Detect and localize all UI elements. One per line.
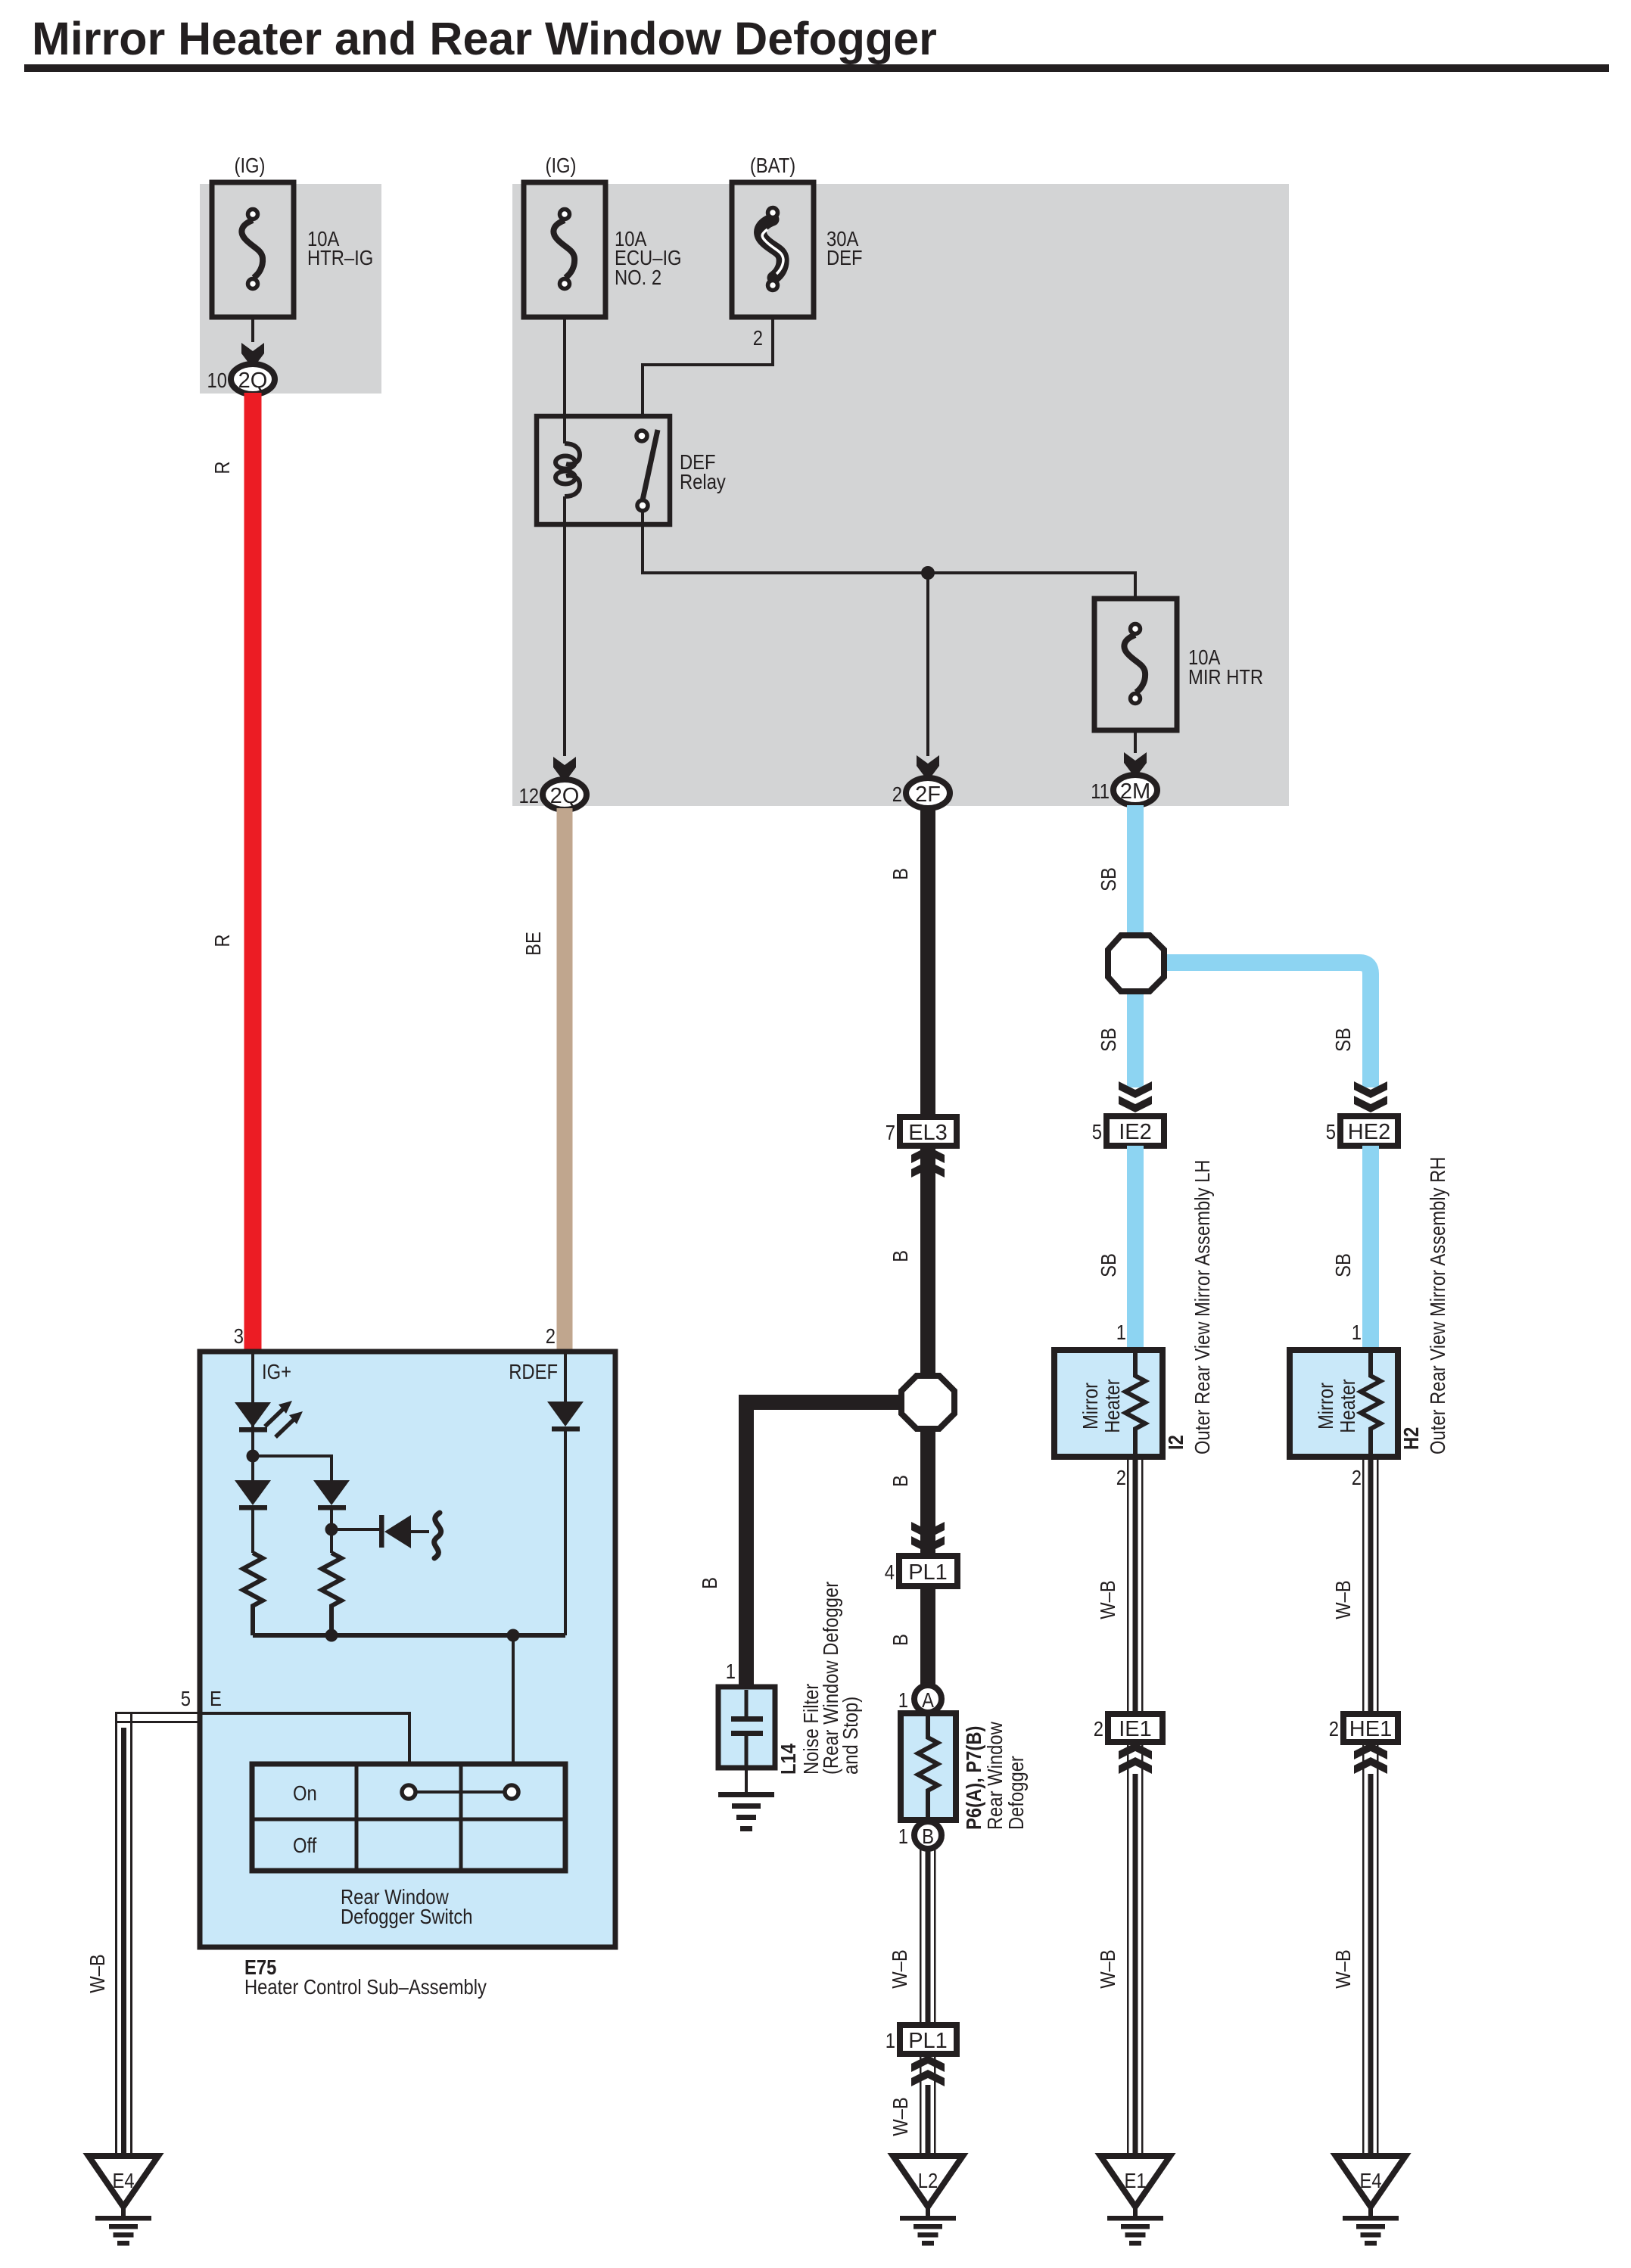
wire RDEF diode down to bottom rail (564, 1431, 567, 1635)
arrow into connector 2Q pin 12 (553, 757, 576, 782)
svg-text:EL3: EL3 (908, 1121, 948, 1145)
svg-text:1: 1 (1116, 1320, 1126, 1344)
wire SB splice down to IE2 (1127, 991, 1144, 1087)
diode with curve (buzzer diode) (379, 1513, 441, 1558)
svg-text:Off: Off (293, 1833, 317, 1857)
svg-text:E1: E1 (1124, 2168, 1146, 2192)
wire relay switch to MIR HTR fuse and 2F branch (643, 511, 1135, 599)
wire B black 2F to EL3 (920, 807, 935, 1118)
arrow into connector 2Q pin 10 (241, 343, 264, 369)
svg-text:Outer Rear View Mirror Assembl: Outer Rear View Mirror Assembly RH (1425, 1157, 1449, 1454)
defogger switch box (252, 1764, 565, 1871)
svg-text:3: 3 (234, 1324, 244, 1348)
wire fuse1 to connector (251, 317, 254, 342)
svg-text:2: 2 (546, 1324, 556, 1348)
wire noise filter to ground (745, 1768, 748, 1794)
wire junction down to 2F (926, 573, 929, 756)
fuse HTR-IG element (241, 210, 263, 289)
svg-text:PL1: PL1 (908, 2029, 948, 2053)
wire B black EL3 to splice (920, 1146, 935, 1380)
svg-text:2: 2 (1329, 1716, 1339, 1741)
noise filter L14 box (718, 1687, 775, 1768)
wire SB HE2 to mirror heater RH (1362, 1146, 1379, 1352)
relay coil (556, 443, 580, 496)
fuse DEF element 30A thick (761, 208, 783, 291)
svg-text:SB: SB (1096, 1253, 1120, 1277)
svg-text:2M: 2M (1120, 779, 1150, 804)
connector oval 2F pin 2 (906, 778, 950, 808)
ground E1 (1100, 2156, 1170, 2246)
splice octagon black wire (901, 1376, 954, 1429)
svg-text:B: B (888, 1475, 912, 1487)
svg-text:2: 2 (753, 325, 763, 350)
fuse DEF box (732, 182, 814, 317)
svg-text:W–B: W–B (1095, 1949, 1119, 1989)
ground E4 left (89, 2156, 158, 2246)
svg-text:Relay: Relay (680, 469, 726, 493)
svg-text:NO. 2: NO. 2 (615, 265, 661, 289)
gray block main (relay / fuse area) (512, 184, 1289, 806)
svg-text:Heater Control Sub–Assembly: Heater Control Sub–Assembly (244, 1974, 487, 1999)
svg-text:W–B: W–B (1331, 1949, 1355, 1989)
svg-text:I2: I2 (1163, 1435, 1187, 1450)
svg-text:(IG): (IG) (235, 153, 266, 177)
arrow into connector 2M (1124, 752, 1147, 778)
svg-text:L2: L2 (918, 2168, 938, 2192)
svg-text:PL1: PL1 (908, 1560, 948, 1585)
connector oval 2M pin 11 (1113, 775, 1157, 805)
wire RDEF down (564, 1352, 567, 1402)
svg-text:HE1: HE1 (1349, 1717, 1392, 1741)
bottom rail wire in E75 (253, 1633, 565, 1638)
mirror heater LH caption rotated (1078, 1379, 1124, 1433)
svg-text:MIR HTR: MIR HTR (1188, 664, 1263, 689)
svg-text:2: 2 (1094, 1716, 1103, 1741)
mirror heater LH box (1054, 1350, 1163, 1457)
svg-text:1: 1 (886, 2028, 895, 2052)
chevron arrow up into HE1 (1354, 1743, 1387, 1774)
svg-text:HTR–IG: HTR–IG (307, 245, 373, 269)
svg-text:W–B: W–B (1331, 1580, 1355, 1619)
wire MIR HTR fuse to 2M (1134, 730, 1137, 753)
svg-text:B: B (697, 1577, 721, 1589)
wire SB 2M to splice (1127, 805, 1144, 938)
wire DEF fuse to relay switch (643, 317, 773, 418)
wire W-B HE1 to ground E4 (1362, 1742, 1379, 2154)
svg-text:E: E (210, 1686, 222, 1710)
connector circle A pin 1 (914, 1685, 942, 1713)
svg-text:Mirror Heater and Rear Window: Mirror Heater and Rear Window Defogger (32, 13, 937, 64)
chevron arrow up into EL3 (911, 1146, 945, 1178)
diode left (235, 1480, 271, 1510)
relay switch contacts and blade (637, 430, 658, 511)
chevron arrow up into IE1 (1119, 1743, 1152, 1774)
connector oval 2Q pin 12 (543, 779, 587, 810)
wire B black PL1 to defogger A (920, 1586, 935, 1685)
wire W-B IE1 to ground E1 (1127, 1742, 1144, 2154)
fuse HTR-IG box (212, 182, 294, 317)
junction dot below LED (247, 1450, 260, 1463)
chevron arrow down into HE2 (1354, 1081, 1387, 1112)
svg-text:A: A (922, 1688, 934, 1712)
svg-text:(IG): (IG) (546, 153, 577, 177)
svg-text:2: 2 (1116, 1465, 1126, 1489)
splice octagon SB (1108, 935, 1164, 991)
svg-text:2: 2 (892, 782, 902, 806)
svg-text:SB: SB (1096, 867, 1120, 891)
wire left diode to resistor (251, 1510, 254, 1553)
junction dot at 2F branch (921, 566, 935, 580)
svg-text:B: B (888, 868, 912, 880)
wire B black splice left to noise filter (746, 1402, 901, 1687)
svg-text:IG+: IG+ (262, 1359, 291, 1383)
svg-text:1: 1 (726, 1659, 736, 1683)
wire right diode to resistor (330, 1510, 333, 1553)
svg-text:2Q: 2Q (550, 784, 580, 808)
svg-text:R: R (210, 461, 234, 474)
diode right (313, 1480, 350, 1510)
wire rail junction down to switch (512, 1635, 515, 1764)
connector IE1 pin 2 (1108, 1714, 1163, 1742)
diode RDEF (547, 1402, 584, 1432)
ground below noise filter (718, 1792, 774, 1831)
connector oval 2Q pin 10 (231, 364, 275, 394)
svg-text:7: 7 (886, 1120, 895, 1144)
svg-text:SB: SB (1331, 1028, 1355, 1052)
svg-text:Heater: Heater (1100, 1379, 1124, 1433)
switch grid divider vertical 2 (459, 1764, 463, 1871)
svg-text:H2: H2 (1399, 1427, 1423, 1450)
svg-text:Heater: Heater (1335, 1379, 1359, 1433)
fuse ECU-IG box (524, 182, 605, 317)
svg-text:1: 1 (1352, 1320, 1362, 1344)
svg-text:B: B (922, 1824, 934, 1848)
fuse ECU-IG element (553, 210, 574, 289)
mirror heater LH resistor (1125, 1350, 1145, 1457)
svg-text:12: 12 (519, 783, 539, 807)
LED arrows (265, 1401, 303, 1437)
svg-text:11: 11 (1091, 779, 1110, 803)
switch contact (402, 1785, 518, 1799)
fuse MIR HTR box (1094, 599, 1177, 730)
connector PL1 pin 4 (899, 1556, 957, 1586)
mirror heater RH caption rotated (1313, 1379, 1359, 1433)
wire branch to right diode (253, 1456, 331, 1480)
svg-text:BE: BE (521, 932, 545, 956)
connector HE2 pin 5 (1340, 1116, 1398, 1146)
arrow into connector 2F (917, 755, 939, 781)
connector HE1 pin 2 (1343, 1714, 1398, 1742)
ground L2 (893, 2156, 963, 2246)
wire fuse2 through relay coil top (563, 317, 566, 443)
svg-text:W–B: W–B (888, 2097, 912, 2136)
svg-text:Outer Rear View Mirror Assembl: Outer Rear View Mirror Assembly LH (1190, 1160, 1214, 1454)
svg-text:SB: SB (1331, 1253, 1355, 1277)
junction dot bottom rail left (325, 1629, 338, 1642)
svg-text:5: 5 (1326, 1119, 1336, 1143)
defogger resistor (918, 1713, 938, 1820)
svg-text:RDEF: RDEF (509, 1359, 558, 1383)
chevron arrow down into IE2 (1119, 1081, 1152, 1112)
svg-text:Mirror: Mirror (1313, 1383, 1337, 1430)
svg-text:Mirror: Mirror (1078, 1383, 1102, 1430)
wire relay coil bottom (563, 496, 566, 756)
mirror heater RH box (1290, 1350, 1398, 1457)
svg-text:2F: 2F (915, 782, 941, 807)
svg-text:DEF: DEF (826, 245, 863, 269)
switch grid divider vertical 1 (355, 1764, 359, 1871)
relay DEF box (537, 416, 670, 524)
chevron arrow up into PL1 (911, 2055, 945, 2086)
switch grid divider horizontal (252, 1818, 565, 1822)
svg-text:B: B (888, 1634, 912, 1646)
connector PL1 pin 1 (900, 2025, 957, 2054)
wire IG+ down (251, 1352, 254, 1456)
ground E4 right (1336, 2156, 1405, 2246)
svg-text:Defogger: Defogger (1004, 1756, 1028, 1830)
gray block left (HTR-IG fuse area) (200, 184, 381, 394)
svg-text:E4: E4 (112, 2168, 134, 2192)
svg-text:SB: SB (1096, 1028, 1120, 1052)
svg-text:(BAT): (BAT) (750, 153, 795, 177)
svg-text:IE1: IE1 (1119, 1717, 1152, 1741)
capacitor in noise filter (731, 1690, 763, 1768)
svg-text:E4: E4 (1359, 2168, 1381, 2192)
wire W-B mirror RH to HE1 (1362, 1457, 1379, 1714)
wire E to switch (200, 1713, 409, 1764)
svg-text:1: 1 (898, 1688, 908, 1712)
svg-text:4: 4 (885, 1560, 895, 1584)
wire B black splice down to PL1 (920, 1429, 935, 1557)
svg-text:IE2: IE2 (1119, 1120, 1152, 1144)
svg-text:10: 10 (207, 368, 227, 392)
svg-text:2Q: 2Q (238, 369, 268, 393)
svg-text:W–B: W–B (85, 1954, 109, 1993)
LED indicator diode (235, 1402, 271, 1433)
wire W-B mirror LH to IE1 (1127, 1457, 1144, 1714)
resistor right in E75 (322, 1553, 341, 1635)
svg-text:1: 1 (898, 1824, 908, 1848)
wire SB IE2 to mirror heater LH (1127, 1146, 1144, 1352)
wire W-B defogger B to PL1 (920, 1849, 936, 2025)
wire BE tan from 2Q to E75 (557, 808, 573, 1352)
junction dot right branch (325, 1523, 338, 1536)
connector circle B pin 1 (914, 1822, 942, 1849)
fuse MIR HTR element (1124, 624, 1145, 704)
junction dot bottom rail right (507, 1629, 520, 1642)
svg-text:5: 5 (1092, 1119, 1102, 1143)
wire junction to zener diode (331, 1528, 381, 1531)
wire R red from 2Q to E75 (244, 393, 262, 1352)
E75 heater control sub-assembly box (200, 1352, 615, 1947)
title underline (24, 64, 1609, 72)
connector EL3 pin 7 (900, 1117, 957, 1146)
wire W-B from E to ground E4 (115, 1712, 201, 2154)
svg-text:2: 2 (1352, 1465, 1362, 1489)
connector IE2 pin 5 (1107, 1116, 1164, 1146)
svg-text:HE2: HE2 (1348, 1120, 1390, 1144)
svg-text:5: 5 (181, 1686, 191, 1710)
resistor left in E75 (243, 1553, 263, 1635)
wire LED junction down (251, 1456, 254, 1480)
rear window defogger element box (901, 1713, 956, 1820)
mirror heater RH resistor (1361, 1350, 1380, 1457)
svg-text:W–B: W–B (887, 1949, 911, 1989)
svg-text:Defogger Switch: Defogger Switch (341, 1904, 473, 1928)
chevron arrow down into PL1 (911, 1522, 945, 1553)
svg-text:and Stop): and Stop) (838, 1697, 862, 1775)
svg-text:B: B (888, 1250, 912, 1262)
svg-text:L14: L14 (776, 1744, 800, 1775)
svg-text:On: On (293, 1781, 317, 1805)
wire SB splice right to RH (1163, 963, 1371, 1087)
svg-text:W–B: W–B (1095, 1580, 1119, 1619)
svg-text:R: R (210, 934, 234, 947)
wire W-B PL1 to ground L2 (920, 2054, 936, 2154)
